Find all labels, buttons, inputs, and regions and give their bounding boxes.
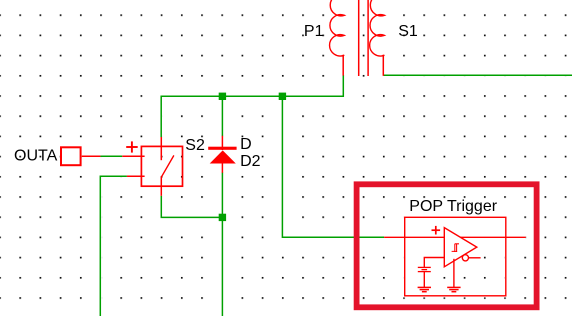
ground under battery	[418, 287, 431, 291]
POP trigger inner box	[405, 217, 506, 295]
junction node at diode top	[219, 93, 226, 100]
svg-text:S1: S1	[398, 23, 418, 40]
switch S2 left pin 2	[127, 175, 145, 177]
terminal OUTA pin	[82, 155, 101, 157]
svg-text:S2: S2	[185, 137, 205, 154]
plus label of comparator	[432, 226, 441, 235]
diode D2 anode triangle	[210, 150, 236, 163]
ground under comparator	[447, 287, 460, 291]
output stub line	[469, 257, 481, 259]
transformer primary pin	[342, 55, 344, 76]
wire: main horizontal net y=96.3	[161, 75, 343, 137]
svg-text:P1: P1	[304, 23, 324, 40]
terminal OUTA box	[61, 147, 81, 165]
diode D2 top pin	[221, 136, 223, 150]
switch S2 bottom pin	[160, 177, 162, 196]
transformer secondary winding S1	[370, 0, 385, 56]
op-amp comparator triangle	[444, 228, 477, 267]
wire: diode bottom to page bottom	[221, 173, 223, 316]
transformer secondary pin	[382, 55, 384, 76]
svg-text:D2: D2	[240, 153, 261, 170]
wire: diode top branch	[221, 96, 223, 136]
switch S2 body box	[141, 146, 182, 186]
switch S2 left pin 1	[122, 155, 144, 157]
inverted output circle	[462, 255, 468, 261]
transformer primary winding P1	[330, 0, 345, 56]
wire: OUTA to switch middle green segment	[100, 155, 122, 157]
inverting input line from battery	[424, 258, 444, 268]
POP trigger input line	[384, 236, 526, 238]
trigger step glyph	[452, 244, 459, 252]
svg-text:D: D	[240, 136, 252, 153]
junction node below switch	[219, 214, 226, 221]
diode D2 cathode bar	[208, 147, 236, 150]
wire: switch bottom to junction	[161, 196, 222, 218]
wire: lower-left branch	[100, 176, 127, 316]
switch S2 top pin	[160, 137, 162, 160]
svg-text:POP Trigger: POP Trigger	[409, 198, 497, 215]
POP trigger thick frame	[357, 184, 537, 307]
junction node at POP branch	[279, 93, 286, 100]
svg-text:OUTA: OUTA	[14, 147, 58, 164]
battery reference plates	[418, 267, 431, 271]
battery to ground wire	[423, 272, 425, 288]
wire: secondary output to right edge	[383, 74, 572, 76]
transformer core	[359, 0, 368, 76]
comparator ground wire	[453, 259, 455, 288]
polarity plus of switch	[126, 141, 138, 152]
wire: POP trigger branch vertical + horizontal	[282, 96, 384, 237]
diode D2 bottom pin	[221, 160, 223, 173]
switch S2 blade	[161, 156, 173, 177]
